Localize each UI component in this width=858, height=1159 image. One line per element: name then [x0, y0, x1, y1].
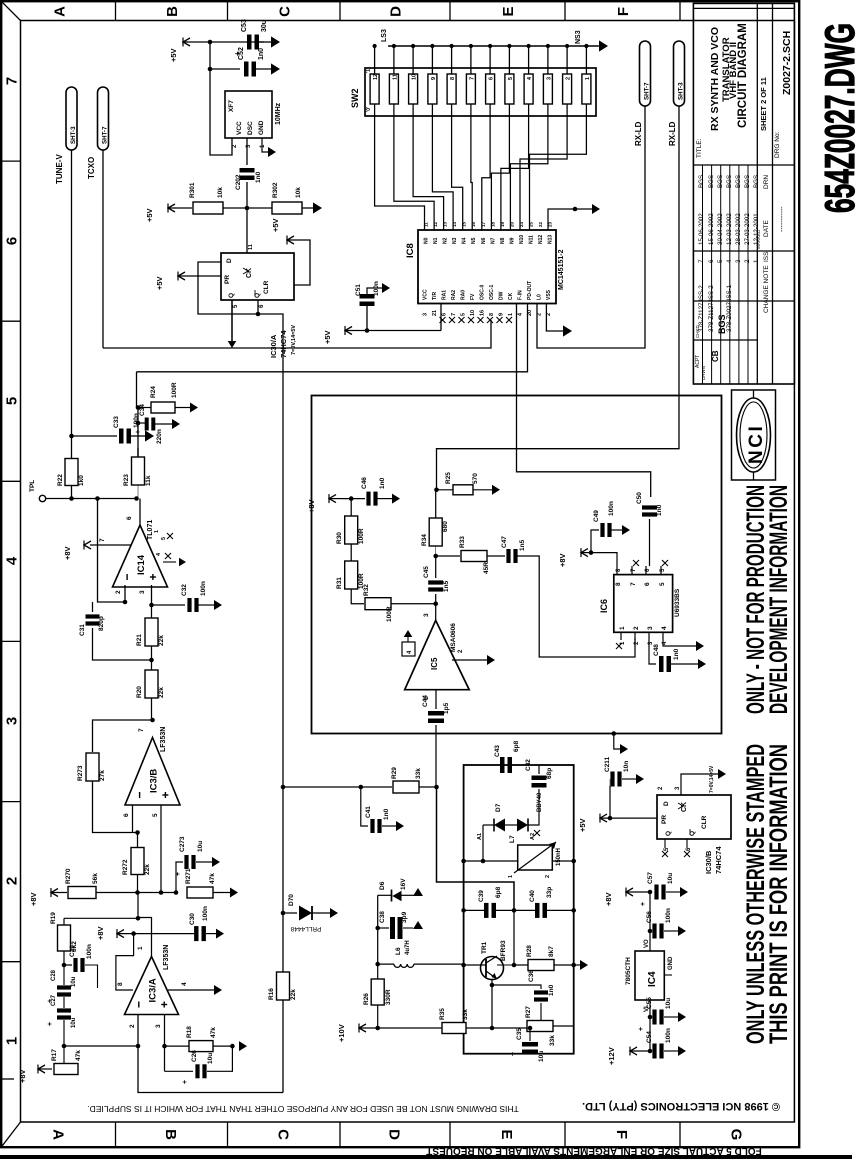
- svg-text:N2: N2: [443, 237, 449, 244]
- svg-text:LF353N: LF353N: [163, 945, 170, 970]
- power +8V IC14 pin7: [90, 544, 131, 546]
- svg-text:R302: R302: [272, 182, 279, 198]
- svg-text:47k: 47k: [210, 1027, 217, 1038]
- svg-text:C51: C51: [355, 284, 362, 296]
- svg-text:N12: N12: [538, 235, 544, 244]
- corner diagonal top-left: [1, 1, 20, 20]
- svg-text:C57: C57: [647, 872, 654, 884]
- svg-text:CHANGE NOTE: CHANGE NOTE: [763, 265, 770, 313]
- svg-text:1: 1: [585, 77, 591, 80]
- svg-text:BGS: BGS: [717, 175, 724, 188]
- capacitor C26 10u: [165, 1070, 194, 1072]
- svg-text:2: 2: [545, 875, 551, 878]
- svg-text:THIS DRAWING MUST NOT BE USED: THIS DRAWING MUST NOT BE USED FOR ANY PU…: [87, 1104, 519, 1114]
- svg-text:14: 14: [452, 221, 457, 227]
- svg-text:'0': '0': [366, 107, 372, 112]
- svg-text:10u: 10u: [71, 1017, 77, 1028]
- power +5V IC30/A CLR: [287, 240, 310, 285]
- wire TR1 base collector row: [464, 964, 486, 966]
- wire TUNE-V down to R22: [71, 150, 73, 459]
- svg-text:+8V: +8V: [604, 892, 613, 906]
- svg-text:C50: C50: [636, 492, 643, 504]
- svg-text:CB: CB: [711, 350, 720, 362]
- section box oscillator: [464, 765, 574, 1054]
- svg-text:Z0027-2.SCH: Z0027-2.SCH: [781, 31, 793, 95]
- inductor L7 150nH tank row: [464, 860, 518, 862]
- svg-text:SHT-3: SHT-3: [70, 126, 77, 144]
- svg-text:R32: R32: [363, 584, 370, 596]
- ground stub box bottom: [612, 731, 617, 736]
- wire bias to C273 R271: [161, 892, 176, 894]
- svg-text:C43: C43: [494, 745, 501, 757]
- svg-text:12: 12: [433, 221, 438, 227]
- svg-text:C41: C41: [365, 806, 372, 818]
- svg-text:5: 5: [461, 313, 467, 316]
- svg-text:7805CTH: 7805CTH: [625, 957, 632, 985]
- wire IC14 output to R23: [139, 499, 141, 526]
- svg-text:24: 24: [519, 221, 524, 227]
- capacitor C56 100n: [649, 892, 651, 931]
- svg-text:C26: C26: [191, 1050, 198, 1062]
- svg-text:R21: R21: [136, 634, 143, 646]
- svg-text:RA0: RA0: [461, 290, 467, 300]
- junction arrow IC30/A Q to wire: [231, 300, 233, 344]
- svg-text:R19: R19: [50, 912, 57, 924]
- svg-text:'1': '1': [366, 68, 372, 73]
- svg-text:1: 1: [619, 626, 626, 630]
- svg-text:B: B: [164, 6, 181, 17]
- svg-text:TRANSLATOR: TRANSLATOR: [721, 37, 732, 102]
- resistor R21 22k: [145, 618, 158, 646]
- svg-text:7=0V,14=5V: 7=0V,14=5V: [709, 765, 715, 793]
- svg-text:Q: Q: [228, 293, 235, 298]
- title block divider columns: [756, 3, 758, 384]
- power +8V bias R270: [51, 889, 58, 897]
- svg-text:IC14: IC14: [136, 554, 147, 575]
- svg-text:6: 6: [708, 259, 715, 263]
- svg-text:R270: R270: [65, 868, 72, 884]
- wire IC3/A pin3: [164, 1014, 166, 1071]
- resistor R302 10k: [272, 202, 302, 214]
- node C45 R32 IC5: [433, 601, 438, 606]
- svg-text:6: 6: [4, 237, 21, 245]
- svg-text:7: 7: [698, 259, 705, 263]
- svg-text:9: 9: [499, 313, 505, 316]
- svg-text:22k: 22k: [158, 635, 165, 646]
- resistor R270 56k: [68, 887, 96, 899]
- svg-text:GND: GND: [668, 956, 674, 970]
- svg-text:U6933BS: U6933BS: [674, 588, 681, 617]
- svg-text:B: B: [162, 1129, 179, 1140]
- IC IC6 U6933BS box: [614, 575, 673, 633]
- svg-text:1n5: 1n5: [519, 539, 526, 551]
- svg-text:1n0: 1n0: [673, 648, 680, 660]
- svg-text:3p9: 3p9: [401, 911, 408, 923]
- capacitor C40 33p tank: [514, 909, 537, 911]
- svg-text:GND: GND: [258, 120, 265, 135]
- svg-text:DSC: DSC: [247, 121, 254, 135]
- svg-text:10u: 10u: [665, 998, 672, 1009]
- wire IC3/B pin6: [132, 805, 134, 833]
- capacitor C31 820p: [92, 602, 94, 612]
- svg-text:D7: D7: [495, 803, 502, 812]
- svg-text:OSC-1: OSC-1: [489, 285, 495, 301]
- wire tank node to collector: [513, 910, 515, 965]
- svg-text:CHKD: CHKD: [695, 324, 700, 338]
- wire IC30/B pin3 clk: [681, 774, 718, 795]
- svg-text:N8: N8: [500, 237, 506, 244]
- svg-text:R18: R18: [186, 1026, 193, 1038]
- svg-text:C40: C40: [529, 890, 536, 902]
- svg-text:1: 1: [154, 530, 160, 533]
- svg-text:G: G: [728, 1129, 745, 1141]
- svg-text:D6: D6: [379, 881, 386, 890]
- svg-text:D: D: [226, 258, 233, 263]
- svg-text:45R: 45R: [483, 562, 490, 574]
- svg-text:R272: R272: [122, 859, 129, 875]
- wire XF7 DSC to C202: [246, 138, 248, 165]
- svg-text:DATE: DATE: [763, 219, 770, 237]
- svg-text:PRLL4448: PRLL4448: [290, 925, 321, 932]
- capacitor C39 6p8 tank: [464, 909, 486, 911]
- svg-text:30u: 30u: [261, 20, 268, 32]
- IC6 pin stubs: [616, 566, 618, 575]
- regulator IC4 7805CTH box: [649, 931, 651, 951]
- svg-text:RA2: RA2: [451, 290, 457, 300]
- svg-text:10MHz: 10MHz: [275, 102, 282, 125]
- opamp IC14 TL071: [113, 525, 168, 587]
- wire base through box edge: [463, 963, 465, 966]
- svg-text:DRWN: DRWN: [701, 366, 706, 380]
- svg-text:BGS: BGS: [735, 175, 742, 188]
- svg-text:LF353N: LF353N: [160, 727, 167, 752]
- svg-text:100n: 100n: [608, 501, 615, 516]
- svg-text:10: 10: [470, 310, 476, 316]
- capacitor C273 10u: [176, 862, 183, 893]
- title block revision table rows: [702, 165, 704, 384]
- resistor R271 47k: [187, 887, 213, 898]
- svg-text:1n0: 1n0: [258, 48, 265, 60]
- svg-text:1n0: 1n0: [255, 171, 262, 183]
- wire IC3/B pin5 to bias: [160, 805, 162, 893]
- power +8V C57: [626, 888, 633, 896]
- svg-text:1n0: 1n0: [379, 477, 386, 489]
- capacitor C51 100n: [345, 330, 441, 332]
- svg-text:C46: C46: [361, 477, 368, 489]
- svg-text:C27: C27: [51, 994, 57, 1006]
- capacitor C46 1n0: [366, 492, 370, 506]
- svg-text:D: D: [388, 6, 405, 17]
- svg-text:MC145151-2: MC145151-2: [558, 249, 565, 290]
- svg-text:VSS: VSS: [546, 289, 552, 300]
- svg-text:R29: R29: [391, 767, 398, 779]
- svg-text:11: 11: [392, 74, 398, 80]
- svg-text:5: 5: [161, 537, 167, 540]
- flip-flop IC30/B 74HC74 box: [657, 795, 731, 839]
- node junction R301 R302 C202: [245, 206, 250, 211]
- svg-text:FV: FV: [470, 293, 476, 300]
- svg-text:+8V: +8V: [96, 926, 105, 940]
- svg-text:3: 3: [423, 313, 429, 316]
- svg-text:C38: C38: [379, 911, 386, 923]
- svg-text:17: 17: [481, 221, 486, 227]
- svg-text:IC3/A: IC3/A: [148, 978, 159, 1002]
- ground C52: [271, 63, 280, 74]
- svg-text:PR: PR: [661, 815, 668, 824]
- svg-text:PD-OUT: PD-OUT: [527, 281, 533, 300]
- svg-text:21: 21: [432, 310, 438, 316]
- wire TCXO horizontal run to IC8: [103, 320, 491, 348]
- svg-text:+5V: +5V: [271, 218, 280, 232]
- capacitor C211 10n: [609, 786, 611, 818]
- resistor R17 47k: [38, 1065, 45, 1073]
- svg-text:2: 2: [633, 626, 640, 630]
- svg-text:33k: 33k: [462, 1009, 469, 1020]
- svg-text:ACPT: ACPT: [695, 355, 701, 368]
- svg-text:1: 1: [508, 875, 514, 878]
- svg-text:22k: 22k: [290, 989, 297, 1000]
- capacitor C27 10u: [63, 997, 65, 1008]
- svg-text:8: 8: [117, 982, 124, 986]
- svg-text:10u: 10u: [197, 841, 204, 852]
- svg-text:12: 12: [373, 74, 379, 80]
- svg-text:2: 2: [566, 77, 572, 80]
- svg-text:68p: 68p: [546, 768, 553, 779]
- svg-text:22k: 22k: [144, 864, 151, 875]
- zone ticks top band: [115, 1, 117, 20]
- capacitor C32 100n: [152, 604, 186, 606]
- svg-text:+5V: +5V: [169, 48, 178, 62]
- capacitor C45 1n5: [435, 594, 437, 604]
- svg-text:IC6: IC6: [599, 599, 609, 613]
- capacitor C52 1n0: [244, 62, 249, 77]
- svg-text:C34: C34: [139, 404, 146, 416]
- svg-text:+8V: +8V: [18, 1069, 27, 1083]
- IC6 unused pin x marks: [633, 560, 639, 566]
- svg-text:16: 16: [471, 221, 476, 227]
- svg-text:74HC74: 74HC74: [714, 846, 723, 874]
- svg-text:10k: 10k: [217, 187, 224, 198]
- switch SW2 box: [365, 68, 596, 116]
- power +5V IC30/A PR: [178, 272, 185, 280]
- svg-text:F: F: [613, 1130, 630, 1139]
- svg-text:11: 11: [248, 244, 254, 250]
- capacitor C43 6p8: [500, 757, 505, 773]
- svg-text:C53: C53: [241, 19, 248, 32]
- svg-text:FOLD 5: FOLD 5: [726, 1145, 762, 1156]
- svg-text:680: 680: [442, 521, 449, 532]
- capacitor C49 100n IC6 supply: [581, 549, 588, 557]
- resistor R18 47k: [165, 1045, 192, 1047]
- junction D70: [281, 911, 286, 916]
- svg-text:100n: 100n: [86, 944, 93, 959]
- wire +8V to IC6 pin8: [591, 553, 617, 566]
- svg-text:1n0: 1n0: [656, 504, 663, 516]
- wire IC30/A Q output: [231, 300, 233, 344]
- svg-text:820p: 820p: [98, 616, 105, 631]
- resistor R16 22k: [277, 972, 290, 1000]
- svg-text:R301: R301: [189, 182, 196, 198]
- svg-text:+: +: [510, 1052, 517, 1056]
- wire IC6 pin4 ground: [663, 640, 696, 646]
- resistor R30 100R: [350, 499, 352, 516]
- capacitor C48 1n0 IC6 pin3: [649, 640, 656, 664]
- svg-text:ACTUAL SIZE OR ENLARGEMENTS AV: ACTUAL SIZE OR ENLARGEMENTS AVAILABLE ON…: [426, 1145, 723, 1156]
- svg-text:1: 1: [753, 259, 760, 263]
- svg-text:6p8: 6p8: [513, 740, 520, 752]
- oscillator XF7 box: [225, 91, 272, 138]
- svg-text:+: +: [638, 1027, 645, 1031]
- power +8V C46 R30: [329, 495, 336, 503]
- svg-text:10: 10: [412, 74, 418, 80]
- svg-text:ONLY UNLESS OTHERWISE STAMPED: ONLY UNLESS OTHERWISE STAMPED: [742, 744, 770, 1044]
- capacitor C57 10u: [654, 885, 658, 900]
- svg-text:DRN: DRN: [763, 175, 770, 189]
- svg-text:E: E: [498, 1129, 515, 1139]
- NCI logo box: [732, 390, 776, 480]
- svg-text:C49: C49: [593, 510, 600, 522]
- svg-text:D70: D70: [288, 894, 295, 906]
- sheet port SHT-7 TCXO: [98, 87, 109, 150]
- svg-text:CK: CK: [508, 292, 514, 300]
- svg-text:33k: 33k: [415, 768, 422, 779]
- svg-text:C39: C39: [478, 890, 485, 902]
- capacitor C33 100n: [71, 436, 73, 459]
- svg-text:TITLE:: TITLE:: [696, 138, 703, 158]
- svg-text:C36: C36: [528, 970, 535, 982]
- svg-text:4: 4: [661, 626, 668, 630]
- svg-text:R17: R17: [51, 1049, 58, 1061]
- svg-text:+5V: +5V: [323, 330, 332, 344]
- wire RX-LD2 to varactor node: [437, 106, 680, 490]
- svg-text:12-12-2001: 12-12-2001: [753, 213, 760, 245]
- wires SW2 to IC8 data pins: [375, 104, 425, 230]
- sheet port SHT-3 TUNE-V: [66, 87, 77, 150]
- svg-text:NCI: NCI: [746, 424, 767, 464]
- svg-text:3: 3: [546, 77, 552, 80]
- svg-text:2: 2: [115, 590, 122, 594]
- svg-text:TR1: TR1: [481, 941, 488, 954]
- svg-text:L6: L6: [395, 947, 402, 955]
- svg-text:3: 3: [647, 626, 654, 630]
- svg-text:R25: R25: [445, 472, 452, 484]
- power rail oscillator +10V: [359, 1024, 366, 1032]
- capacitor C44 1p5: [428, 711, 444, 716]
- svg-text:N10: N10: [519, 235, 525, 244]
- svg-text:R23: R23: [123, 474, 130, 486]
- svg-text:R20: R20: [136, 686, 143, 698]
- svg-text:OSC-0: OSC-0: [480, 285, 486, 301]
- svg-text:E: E: [500, 6, 517, 16]
- svg-text:+12V: +12V: [607, 1047, 616, 1065]
- power +5V IC8 VCC: [345, 327, 352, 335]
- svg-text:IC8: IC8: [405, 243, 416, 258]
- svg-text:3: 3: [139, 590, 146, 594]
- wire IC30/A Qbar to divider chain: [258, 314, 283, 1093]
- svg-text:-----------: -----------: [779, 206, 786, 232]
- sheet port RX-LD SHT-3: [674, 41, 685, 106]
- svg-text:7=0V,14=5V: 7=0V,14=5V: [291, 325, 297, 355]
- svg-text:378-Z1127 ISS-2: 378-Z1127 ISS-2: [698, 285, 705, 332]
- svg-text:100n: 100n: [665, 1028, 672, 1043]
- svg-text:1: 1: [137, 946, 144, 950]
- svg-text:NS3: NS3: [575, 30, 582, 44]
- svg-text:ISS: ISS: [763, 251, 770, 262]
- wire RX-LD1 lock detect run: [537, 106, 645, 348]
- capacitor C54 100n: [649, 1017, 651, 1051]
- wire IC8 pin PD-OUT to loop filter: [137, 304, 528, 372]
- svg-text:22k: 22k: [158, 687, 165, 698]
- scan edge artifact bottom: [0, 1155, 852, 1159]
- resistor R24 100R: [138, 407, 152, 409]
- wire R23 to output node: [137, 408, 139, 458]
- wire C47 to IC6 pin2: [517, 556, 635, 657]
- svg-text:C32: C32: [181, 584, 188, 596]
- wire IC30/A feedback loop D input: [198, 262, 258, 314]
- svg-text:MSA0606: MSA0606: [450, 623, 457, 652]
- svg-text:D: D: [386, 1129, 403, 1140]
- svg-text:13: 13: [443, 221, 448, 227]
- svg-text:10u: 10u: [207, 1053, 214, 1064]
- svg-text:6: 6: [123, 813, 130, 817]
- svg-text:7: 7: [451, 313, 457, 316]
- svg-text:N9: N9: [510, 237, 516, 244]
- svg-text:+5V: +5V: [155, 276, 164, 290]
- svg-text:330R: 330R: [385, 989, 392, 1005]
- svg-text:N5: N5: [471, 237, 477, 244]
- svg-text:RX SYNTH AND VCO: RX SYNTH AND VCO: [709, 27, 721, 131]
- test point TPL: [39, 495, 45, 501]
- svg-text:PR: PR: [224, 275, 231, 284]
- NCI logo oval: [737, 398, 771, 472]
- svg-text:N0: N0: [424, 237, 430, 244]
- svg-text:15-06-2002: 15-06-2002: [708, 213, 715, 245]
- corner diagonal bottom-left: [1, 1122, 20, 1147]
- junction R29 line: [281, 785, 286, 790]
- svg-text:BGS: BGS: [726, 175, 733, 188]
- svg-text:SHEET 2 OF 11: SHEET 2 OF 11: [759, 77, 768, 131]
- wire R19 chain to output node: [64, 917, 138, 919]
- capacitor C50 1n0: [642, 505, 657, 509]
- svg-text:7: 7: [469, 77, 475, 80]
- svg-text:CLR: CLR: [701, 815, 708, 829]
- svg-text:N7: N7: [490, 237, 496, 244]
- svg-text:BFR93: BFR93: [500, 940, 507, 961]
- svg-text:4: 4: [726, 259, 733, 263]
- SW2 common bus wire: [388, 45, 598, 47]
- svg-text:27-03-2002: 27-03-2002: [744, 213, 751, 245]
- svg-text:16: 16: [480, 310, 486, 316]
- zener D6 16V: [377, 895, 379, 964]
- svg-text:33k: 33k: [549, 1035, 556, 1046]
- node varactor line R25: [434, 488, 439, 493]
- svg-text:C48: C48: [653, 644, 660, 656]
- svg-text:F-IN: F-IN: [518, 290, 524, 300]
- svg-text:100R: 100R: [386, 606, 393, 622]
- feedback resistor R273 27k: [93, 720, 153, 752]
- capacitor C53 30u: [247, 35, 252, 50]
- svg-text:1p5: 1p5: [443, 702, 450, 714]
- svg-text:6: 6: [644, 582, 651, 586]
- svg-text:A2: A2: [530, 833, 536, 840]
- svg-text:220n: 220n: [156, 429, 163, 444]
- svg-text:C29: C29: [69, 945, 76, 957]
- opamp IC3/B LF353N: [125, 738, 180, 806]
- resistor R31 100R: [350, 544, 352, 561]
- wire IC14 pin3 node: [151, 585, 153, 605]
- svg-text:6: 6: [489, 77, 495, 80]
- wire output node to PD-OUT run: [136, 372, 138, 408]
